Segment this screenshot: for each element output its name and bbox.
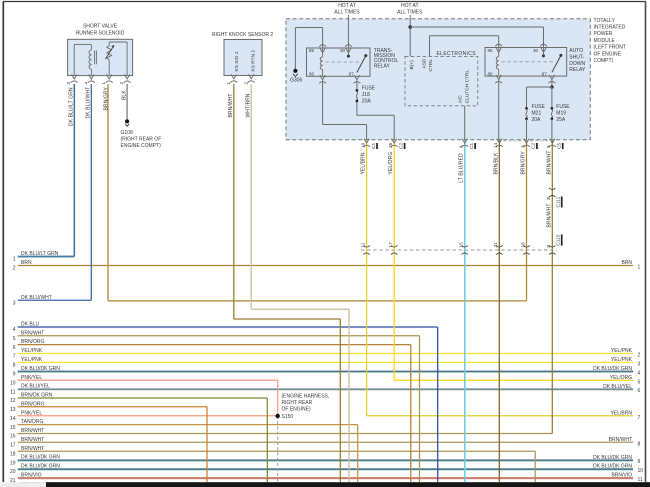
svg-text:AUTO: AUTO	[569, 48, 583, 54]
svg-text:11: 11	[10, 389, 15, 395]
svg-text:8: 8	[13, 363, 16, 369]
svg-text:DK BLU/DK GRN: DK BLU/DK GRN	[593, 464, 632, 470]
svg-text:10: 10	[10, 381, 16, 387]
svg-text:11: 11	[360, 242, 366, 247]
svg-text:7: 7	[13, 354, 16, 360]
svg-text:8: 8	[546, 197, 552, 200]
svg-text:BRN/GRY: BRN/GRY	[103, 87, 109, 111]
svg-text:BRN: BRN	[621, 260, 632, 266]
svg-text:C115: C115	[556, 234, 562, 245]
svg-text:25A: 25A	[556, 117, 566, 123]
svg-text:20: 20	[10, 469, 16, 475]
svg-text:C111: C111	[556, 196, 562, 207]
svg-text:17: 17	[10, 443, 16, 449]
svg-text:BRN/ORG: BRN/ORG	[21, 401, 44, 407]
svg-text:PNK/YEL: PNK/YEL	[21, 375, 42, 381]
svg-text:(RIGHT REAR OF: (RIGHT REAR OF	[121, 136, 162, 142]
svg-text:BRN/WHT: BRN/WHT	[21, 437, 44, 443]
svg-text:20A: 20A	[532, 117, 542, 123]
svg-text:RIGHT KNOCK SENSOR 2: RIGHT KNOCK SENSOR 2	[212, 32, 274, 38]
svg-text:KS SIG 2: KS SIG 2	[234, 51, 240, 71]
svg-text:18: 18	[10, 451, 16, 457]
svg-text:BRN/WHT: BRN/WHT	[546, 203, 552, 227]
svg-text:FUSE: FUSE	[556, 104, 570, 110]
svg-text:5: 5	[638, 379, 641, 385]
svg-text:YEL/PNK: YEL/PNK	[611, 357, 633, 363]
svg-text:19: 19	[10, 460, 16, 466]
svg-text:BRN/GRY: BRN/GRY	[521, 151, 527, 175]
svg-text:HOT AT: HOT AT	[338, 3, 356, 9]
svg-text:6: 6	[638, 388, 641, 394]
svg-text:86: 86	[309, 72, 315, 77]
svg-text:MODULE: MODULE	[594, 38, 616, 44]
svg-text:20A: 20A	[362, 99, 372, 105]
svg-text:3: 3	[13, 300, 16, 306]
svg-text:RELAY: RELAY	[569, 67, 586, 73]
svg-text:15: 15	[459, 242, 465, 248]
svg-text:DK BLU/DK GRN: DK BLU/DK GRN	[21, 464, 60, 470]
svg-text:26: 26	[388, 142, 394, 148]
svg-text:1: 1	[13, 257, 16, 263]
svg-text:1: 1	[101, 82, 107, 85]
svg-text:12: 12	[10, 398, 16, 404]
svg-text:YEL/BRN: YEL/BRN	[361, 152, 367, 174]
svg-text:4: 4	[638, 370, 641, 376]
svg-text:DK BLU/DK GRN: DK BLU/DK GRN	[21, 455, 60, 461]
svg-text:S150: S150	[282, 414, 294, 420]
svg-text:(LEFT FRONT: (LEFT FRONT	[594, 45, 626, 51]
svg-text:G306: G306	[290, 78, 302, 84]
svg-text:BRN/WHT: BRN/WHT	[609, 437, 632, 443]
svg-text:9: 9	[638, 459, 641, 465]
svg-text:BRN/VIO: BRN/VIO	[21, 473, 42, 479]
svg-text:DOWN: DOWN	[569, 61, 585, 67]
svg-text:2: 2	[638, 353, 641, 359]
svg-text:DK BLU/DK GRN: DK BLU/DK GRN	[593, 455, 632, 461]
svg-text:A/C: A/C	[458, 95, 464, 104]
svg-text:ENGINE COMPT): ENGINE COMPT)	[121, 143, 162, 149]
svg-text:C1: C1	[371, 143, 377, 149]
svg-text:16: 16	[520, 242, 526, 248]
svg-text:C2: C2	[531, 143, 537, 149]
svg-text:15: 15	[10, 425, 16, 431]
svg-text:KS RTN 2: KS RTN 2	[250, 50, 256, 72]
svg-text:16: 16	[10, 434, 16, 440]
svg-text:11: 11	[638, 477, 643, 483]
svg-text:PNK/YEL: PNK/YEL	[21, 410, 42, 416]
svg-text:INTEGRATED: INTEGRATED	[594, 25, 626, 31]
svg-text:DK BLU/LT GRN: DK BLU/LT GRN	[21, 251, 59, 257]
svg-text:DK BLU: DK BLU	[21, 322, 39, 328]
svg-text:DK BLU/WHT: DK BLU/WHT	[21, 295, 52, 301]
svg-text:YEL/ORG: YEL/ORG	[610, 375, 632, 381]
svg-text:(ENGINE HARNESS,: (ENGINE HARNESS,	[282, 394, 330, 400]
svg-text:RUNNER SOLENOID: RUNNER SOLENOID	[76, 31, 125, 37]
svg-text:OF ENGINE: OF ENGINE	[594, 51, 622, 57]
svg-text:OF ENGINE): OF ENGINE)	[282, 407, 312, 413]
svg-text:COMPT): COMPT)	[594, 58, 614, 64]
svg-text:31: 31	[493, 242, 499, 248]
svg-text:BRN/ORG: BRN/ORG	[21, 339, 44, 345]
svg-text:2: 2	[119, 82, 125, 85]
svg-text:CLUTCH CTRL: CLUTCH CTRL	[464, 70, 470, 104]
svg-text:14: 14	[493, 142, 499, 148]
svg-text:YEL/PNK: YEL/PNK	[611, 348, 633, 354]
svg-text:DK BLU/DK GRN: DK BLU/DK GRN	[21, 366, 60, 372]
svg-text:10: 10	[638, 468, 644, 474]
svg-text:BRN/WHT: BRN/WHT	[228, 93, 234, 117]
svg-text:M19: M19	[556, 110, 566, 116]
svg-text:85: 85	[488, 48, 494, 53]
svg-text:B(+): B(+)	[409, 60, 415, 70]
svg-text:9: 9	[546, 145, 552, 148]
svg-text:3: 3	[66, 82, 72, 85]
svg-text:YEL/BRN: YEL/BRN	[611, 411, 633, 417]
svg-text:C1: C1	[469, 143, 475, 149]
svg-text:BRN/WHT: BRN/WHT	[546, 151, 552, 175]
svg-text:1: 1	[226, 82, 232, 85]
svg-text:1: 1	[638, 265, 641, 271]
svg-text:13: 13	[10, 407, 16, 413]
svg-text:6: 6	[459, 145, 465, 148]
svg-text:4: 4	[83, 82, 89, 85]
svg-text:8: 8	[546, 245, 552, 248]
svg-text:8: 8	[638, 441, 641, 447]
svg-text:BRN: BRN	[21, 260, 32, 266]
svg-text:C2: C2	[398, 143, 404, 149]
svg-text:9: 9	[13, 372, 16, 378]
svg-text:BRN/VIO: BRN/VIO	[611, 473, 632, 479]
svg-text:3: 3	[520, 145, 526, 148]
svg-text:FUSE: FUSE	[532, 104, 546, 110]
svg-text:3: 3	[638, 361, 641, 367]
svg-text:87: 87	[349, 72, 355, 77]
svg-text:TOTALLY: TOTALLY	[594, 18, 616, 24]
svg-text:RELAY: RELAY	[374, 63, 391, 69]
svg-text:J18: J18	[362, 92, 370, 98]
svg-text:BRN/WHT: BRN/WHT	[21, 428, 44, 434]
svg-text:30: 30	[340, 48, 346, 53]
svg-text:DK BLU/WHT: DK BLU/WHT	[86, 87, 92, 119]
svg-text:FUSE: FUSE	[362, 86, 376, 92]
svg-text:ALL TIMES: ALL TIMES	[397, 9, 423, 15]
svg-text:TAN/ORG: TAN/ORG	[21, 419, 44, 425]
svg-text:YEL/ORG: YEL/ORG	[388, 152, 394, 175]
svg-text:85: 85	[309, 48, 315, 53]
svg-text:6: 6	[13, 345, 16, 351]
svg-text:POWER: POWER	[594, 31, 613, 37]
svg-text:YEL/PNK: YEL/PNK	[21, 348, 43, 354]
svg-text:DK BLU/YEL: DK BLU/YEL	[21, 384, 50, 390]
svg-text:CTRL: CTRL	[428, 59, 434, 72]
svg-text:14: 14	[10, 416, 16, 422]
svg-text:ELECTRONICS: ELECTRONICS	[437, 51, 477, 57]
svg-text:17: 17	[388, 242, 394, 248]
svg-text:DK BLU/YEL: DK BLU/YEL	[603, 384, 632, 390]
svg-text:BRN/WHT: BRN/WHT	[21, 330, 44, 336]
svg-text:4: 4	[13, 327, 16, 333]
svg-text:86: 86	[488, 71, 494, 76]
svg-text:87: 87	[542, 71, 548, 76]
svg-text:2: 2	[243, 82, 249, 85]
svg-text:BLK: BLK	[121, 90, 127, 100]
svg-text:SHUT-: SHUT-	[569, 54, 584, 60]
svg-text:2: 2	[13, 266, 16, 272]
svg-text:WHT/BRN: WHT/BRN	[245, 93, 251, 117]
svg-text:RIGHT REAR: RIGHT REAR	[282, 400, 313, 406]
svg-text:G108: G108	[121, 130, 133, 136]
svg-text:30: 30	[533, 48, 539, 53]
svg-text:YEL/PNK: YEL/PNK	[21, 357, 43, 363]
svg-text:HOT AT: HOT AT	[401, 3, 419, 9]
svg-text:10: 10	[360, 142, 366, 148]
svg-text:LT BLU/RED: LT BLU/RED	[459, 153, 465, 183]
svg-text:ALL TIMES: ALL TIMES	[334, 9, 360, 15]
svg-text:DK BLU/LT GRN: DK BLU/LT GRN	[68, 87, 74, 126]
svg-text:BRN/DK GRN: BRN/DK GRN	[21, 393, 53, 399]
svg-text:BRN/BLK: BRN/BLK	[493, 152, 499, 175]
svg-text:DK BLU/DK GRN: DK BLU/DK GRN	[593, 366, 632, 372]
svg-text:SHORT VALVE: SHORT VALVE	[83, 24, 118, 30]
svg-text:M21: M21	[532, 110, 542, 116]
svg-text:C5: C5	[557, 143, 563, 149]
svg-text:ASD: ASD	[422, 58, 428, 68]
svg-text:BRN/WHT: BRN/WHT	[21, 446, 44, 452]
svg-text:7: 7	[638, 415, 641, 421]
svg-text:5: 5	[13, 336, 16, 342]
